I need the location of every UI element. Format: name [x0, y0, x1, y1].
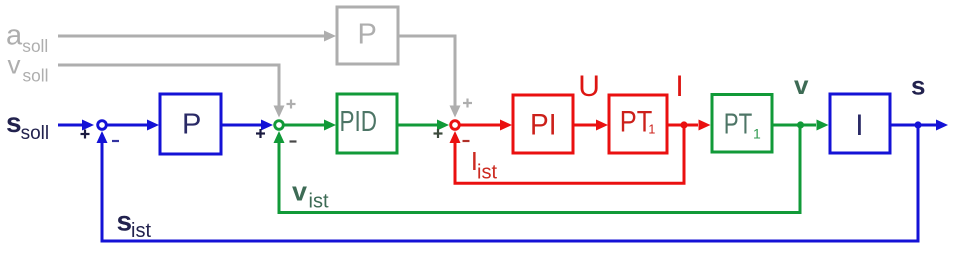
svg-text:soll: soll — [21, 123, 50, 144]
wire P-gray to sum3 — [398, 36, 461, 118]
svg-text:s: s — [117, 206, 133, 237]
node v junction dot — [797, 121, 804, 128]
summing junction sum1 — [98, 121, 107, 130]
wire sum2 to PID — [285, 120, 337, 131]
wire s_ist feedback — [97, 125, 919, 241]
plus sign a_soll path at sum3 — [463, 99, 472, 108]
svg-text:1: 1 — [648, 122, 655, 136]
label I_ist — [471, 146, 498, 184]
wire I_ist feedback — [450, 125, 685, 183]
plus sign at sum2 — [256, 129, 265, 138]
svg-text:P: P — [358, 19, 377, 51]
wire a_soll to block P-gray — [58, 31, 336, 42]
svg-text:a: a — [6, 20, 23, 52]
label a_soll — [6, 20, 48, 56]
svg-text:s: s — [6, 107, 22, 138]
wire I-block to output s — [890, 120, 948, 131]
wire v_soll to sum2 — [58, 65, 285, 118]
plus sign at sum1 — [81, 130, 90, 139]
svg-text:PT: PT — [724, 109, 753, 141]
block P position controller — [160, 94, 221, 154]
label v_ist — [292, 176, 329, 212]
wire PT1-green to I-block — [772, 120, 829, 131]
label v_soll — [8, 49, 49, 85]
node I junction dot — [680, 121, 687, 128]
label s_ist — [117, 206, 152, 243]
block PT1 green motor — [712, 95, 772, 153]
block PI current controller — [513, 95, 573, 153]
svg-text:1: 1 — [753, 126, 761, 142]
svg-text:ist: ist — [131, 220, 151, 242]
wire PI to PT1-red — [573, 120, 608, 131]
svg-text:ist: ist — [477, 162, 497, 184]
svg-text:I: I — [675, 70, 683, 103]
svg-text:v: v — [8, 49, 21, 79]
svg-text:v: v — [292, 176, 307, 206]
wire sum3 to PI — [461, 120, 513, 131]
svg-text:U: U — [578, 70, 600, 103]
svg-text:soll: soll — [22, 36, 48, 56]
svg-text:soll: soll — [23, 66, 49, 86]
block I integrator — [830, 94, 890, 153]
plus sign at sum3 — [434, 129, 443, 138]
block P gray feedforward — [337, 7, 398, 64]
wire sum1 to P — [108, 120, 160, 131]
node s junction dot — [914, 121, 921, 128]
svg-text:I: I — [855, 109, 863, 142]
wire v_ist feedback — [274, 125, 801, 213]
minus sign at sum1 — [112, 140, 119, 142]
wire PT1-red to node I — [667, 120, 711, 131]
plus sign v_soll at sum2 — [287, 100, 296, 109]
wire P to sum2 — [221, 120, 273, 131]
summing junction sum2 — [275, 121, 284, 130]
svg-text:PID: PID — [340, 106, 378, 138]
svg-text:P: P — [182, 109, 201, 141]
svg-text:PI: PI — [530, 109, 557, 142]
label s_soll — [6, 107, 49, 144]
svg-text:s: s — [911, 71, 925, 101]
wire s_soll to sum1 — [58, 120, 94, 131]
svg-text:v: v — [794, 70, 809, 100]
minus sign at sum3 — [463, 140, 470, 142]
minus sign at sum2 — [290, 140, 297, 142]
block PID velocity controller — [337, 94, 397, 153]
svg-text:ist: ist — [309, 191, 329, 213]
wire PID to sum3 — [397, 120, 449, 131]
summing junction sum3 — [451, 121, 460, 130]
block PT1 red converter — [609, 95, 667, 153]
